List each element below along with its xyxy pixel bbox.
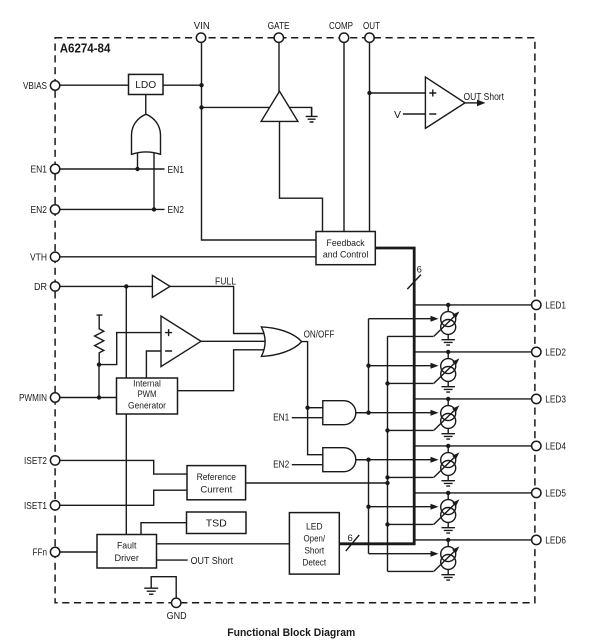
wire AND2 output to EN-B and LED4 (356, 459, 369, 461)
svg-text:VTH: VTH (30, 252, 47, 264)
svg-text:Functional Block Diagram: Functional Block Diagram (227, 627, 355, 639)
current source Q3 (LED3 sink) (434, 399, 460, 433)
bus slash 6 top (407, 275, 421, 290)
wire enable arrow into LED1 cell (369, 318, 431, 320)
wire ON/OFF from OR output down to AND gates (302, 342, 323, 455)
wire TSD to Fault Driver (141, 523, 187, 535)
wire enable arrow into LED2 cell (369, 365, 431, 367)
wire OR gate U2 output to LDO (145, 95, 147, 114)
pin LED3 (532, 394, 567, 406)
wire EN1 line (60, 168, 165, 170)
junction EN-A LED2 branch (366, 364, 370, 368)
wire VIN supply to gate driver (202, 106, 277, 108)
wire VBIAS to LDO (60, 84, 129, 86)
wire EN-A vertical bus (AND1 output to LED1-3) (368, 319, 370, 413)
svg-text:Open/: Open/ (304, 533, 326, 544)
junction LED4 row (446, 444, 450, 448)
wire gate driver input from Feedback (280, 121, 323, 231)
junction VIN-driver (199, 105, 203, 109)
svg-text:Generator: Generator (128, 400, 166, 411)
svg-text:and Control: and Control (323, 250, 368, 261)
wire FULL from buffer to OR gate top input (170, 286, 266, 333)
wire Fault Driver OUT Short output (157, 559, 188, 561)
svg-text:A6274-84: A6274-84 (60, 41, 111, 56)
comparator U4 (OUT Short) (425, 77, 465, 128)
pin GND (167, 598, 187, 622)
svg-text:ISET2: ISET2 (24, 455, 47, 467)
wire OUT to Feedback (369, 42, 371, 231)
ground of LED5 cell (441, 528, 455, 533)
wire DR line (60, 285, 153, 287)
wire driver to ground (284, 107, 312, 116)
svg-text:EN1: EN1 (31, 164, 48, 176)
svg-text:V: V (394, 109, 401, 121)
wire EN2 to AND2 input (292, 464, 323, 466)
ground of LED1 cell (441, 340, 455, 345)
wire OUT to comparator + input (370, 92, 426, 94)
ground of LED3 cell (441, 434, 455, 439)
pin VIN (194, 20, 210, 43)
wire VIN net vertical and into Feedback (202, 42, 317, 240)
wire reference current distribution line (246, 482, 388, 484)
wire EN2 line (60, 208, 165, 210)
wire LED5 output row (414, 492, 531, 494)
svg-text:COMP: COMP (329, 20, 353, 32)
wire enable arrow into LED6 cell (369, 553, 431, 555)
junction EN-B LED5 branch (366, 505, 370, 509)
wire reference tail into LED2 cell (388, 382, 434, 384)
wire EN-B vertical bus (AND2 output to LED4-6) (368, 460, 370, 554)
pin LED1 (532, 300, 567, 312)
wire enable arrow into LED3 cell (356, 412, 431, 414)
wire PWM generator output to OR gate bottom input (178, 350, 267, 391)
junction resistor bottom (97, 362, 101, 366)
junction ref LED2 tail (385, 381, 389, 385)
comparator U6 (PWM) (161, 316, 201, 367)
junction OUT-comparator (367, 91, 371, 95)
svg-text:LED1: LED1 (545, 300, 566, 312)
svg-text:LED6: LED6 (545, 535, 566, 547)
svg-text:Detect: Detect (303, 557, 327, 568)
wire VTH to Feedback (60, 256, 316, 258)
svg-text:GND: GND (167, 610, 187, 622)
ground chassis near GND (144, 588, 158, 594)
and-gate U8 (EN1) (323, 401, 356, 425)
wire enable arrow into LED5 cell (369, 506, 431, 508)
ground of LED6 cell (441, 575, 455, 580)
svg-text:Short: Short (304, 545, 324, 556)
pin ISET1 (24, 500, 60, 512)
junction LED6 row (446, 538, 450, 542)
wire ON/OFF branch to AND1 (308, 407, 323, 409)
junction ref LED3 tail (385, 428, 389, 432)
svg-text:Internal: Internal (133, 378, 161, 389)
ground of LED4 cell (441, 481, 455, 486)
wire GATE to driver (278, 42, 280, 92)
wire LDO to VIN node (163, 84, 202, 86)
pin PWMIN (19, 392, 60, 404)
svg-text:OUT Short: OUT Short (464, 91, 505, 103)
svg-text:EN2: EN2 (273, 459, 289, 471)
pin LED4 (532, 441, 567, 453)
wire reference tail into LED5 cell (388, 523, 434, 525)
svg-text:EN1: EN1 (168, 164, 185, 176)
wire EN2 to OR input (153, 150, 155, 209)
wire V to comparator - input (403, 113, 426, 115)
junction ref LED4 tail (385, 475, 389, 479)
junction DR (124, 284, 128, 288)
and-gate U9 (EN2) (323, 448, 356, 472)
svg-text:6: 6 (417, 265, 422, 276)
svg-text:EN2: EN2 (168, 204, 185, 216)
block TSD (187, 512, 247, 534)
block Feedback and Control (316, 232, 375, 265)
wire LED1 output row (414, 304, 531, 306)
pin COMP (329, 20, 353, 43)
svg-text:EN1: EN1 (273, 412, 289, 424)
svg-text:OUT Short: OUT Short (191, 555, 234, 567)
wire PWM generator down to Fault Driver (125, 414, 127, 535)
pin LED5 (532, 488, 567, 500)
junction LED2 row (446, 350, 450, 354)
ground near gate driver (311, 107, 313, 116)
pin VTH (30, 252, 60, 264)
wire EN1 to AND1 input (292, 417, 323, 419)
current source Q4 (LED4 sink) (434, 446, 460, 480)
svg-text:ISET1: ISET1 (24, 500, 47, 512)
junction EN1-OR (135, 167, 139, 171)
junction LED1 row (446, 303, 450, 307)
svg-text:FULL: FULL (215, 275, 236, 287)
pin OUT (363, 20, 380, 43)
wire resistor node to comparator + input (99, 333, 161, 365)
svg-text:VIN: VIN (194, 20, 210, 32)
current source Q2 (LED2 sink) (434, 352, 460, 386)
pin ISET2 (24, 455, 60, 467)
svg-text:LED5: LED5 (545, 488, 566, 500)
pin LED2 (532, 347, 567, 359)
pin EN2 (31, 204, 60, 216)
wire enable arrow into LED4 cell (356, 459, 431, 461)
svg-text:ON/OFF: ON/OFF (304, 329, 335, 341)
svg-text:Reference: Reference (197, 472, 236, 483)
ground of LED2 cell (441, 387, 455, 392)
junction ON/OFF-AND1 (305, 406, 309, 410)
svg-text:DR: DR (34, 281, 47, 293)
wire comparator output to OR gate middle input (201, 340, 266, 342)
wire LED2 output row (414, 351, 531, 353)
block Internal PWM Generator (117, 378, 178, 414)
svg-text:LED2: LED2 (545, 347, 566, 359)
or-gate U7 (ON/OFF) (261, 327, 301, 357)
svg-text:Fault: Fault (117, 541, 137, 552)
junction LED5 row (446, 491, 450, 495)
wire FFn to Fault Driver (60, 551, 97, 553)
op-amp gate driver triangle U3 (261, 91, 298, 121)
pin DR (34, 281, 60, 293)
pin EN1 (31, 164, 60, 176)
svg-text:OUT: OUT (363, 20, 380, 32)
pin LED6 (532, 535, 567, 547)
wire comparator - input from PWM generator (146, 351, 161, 378)
svg-text:Current: Current (200, 484, 232, 495)
block LDO (129, 74, 164, 94)
wire reference tail into LED4 cell (388, 476, 434, 478)
svg-text:6: 6 (348, 533, 353, 544)
wire reference tail into LED6 cell (388, 570, 434, 572)
wire comparator output arrow OUT Short (465, 102, 478, 104)
svg-text:LED: LED (306, 521, 323, 532)
wire COMP to Feedback (343, 42, 345, 231)
buffer U5 (DR full) (152, 275, 170, 297)
svg-text:LED3: LED3 (545, 394, 566, 406)
wire ISET1 to Reference Current (60, 490, 187, 505)
svg-text:TSD: TSD (206, 518, 227, 530)
wire LED6 output row (414, 539, 531, 541)
wire LED4 output row (414, 445, 531, 447)
svg-text:FFn: FFn (33, 547, 48, 559)
block Reference Current (187, 466, 246, 500)
junction EN-A AND1 output (366, 411, 370, 415)
wire reference tail into LED1 cell (388, 335, 434, 337)
wire LED3 output row (414, 398, 531, 400)
bus slash 6 bottom (346, 535, 359, 551)
wire Fault Driver to LED Open/Short Detect (157, 543, 290, 545)
junction VIN-LDO (199, 83, 203, 87)
svg-text:EN2: EN2 (31, 204, 48, 216)
or-gate U2 (EN1+EN2 to LDO) (132, 114, 161, 154)
junction resistor-PWMIN (97, 395, 101, 399)
current source Q6 (LED6 sink) (434, 540, 460, 574)
svg-text:Feedback: Feedback (327, 238, 365, 249)
bus 6-wire from Feedback to LED drivers and detect (339, 248, 414, 544)
junction LED3 row (446, 397, 450, 401)
junction ref line input (385, 481, 389, 485)
block LED Open/Short Detect (289, 513, 339, 575)
wire GND to chassis ground (151, 577, 176, 598)
resistor R1 (95, 315, 104, 365)
wire ISET2 to Reference Current (60, 460, 187, 474)
wire PWMIN to PWM generator (60, 397, 117, 399)
pin VBIAS (23, 80, 60, 92)
IC boundary dashed border (55, 38, 535, 603)
wire DR down to PWM generator (125, 286, 127, 378)
pin FFn (33, 547, 60, 559)
pin GATE (268, 20, 290, 43)
wire AND1 output to EN-A and LED3 (356, 412, 369, 414)
svg-text:PWM: PWM (138, 389, 157, 400)
svg-text:VBIAS: VBIAS (23, 80, 47, 92)
junction EN2-OR (152, 207, 156, 211)
current source Q5 (LED5 sink) (434, 493, 460, 527)
svg-text:Driver: Driver (114, 553, 139, 564)
junction EN-B AND2 output (366, 458, 370, 462)
block Fault Driver (97, 535, 157, 569)
wire resistor to PWMIN (98, 365, 100, 398)
wire reference vertical bus (387, 336, 389, 571)
svg-text:GATE: GATE (268, 20, 290, 32)
svg-text:PWMIN: PWMIN (19, 392, 47, 404)
wire EN1 to OR input (137, 150, 139, 169)
junction ref LED5 tail (385, 522, 389, 526)
svg-text:LED4: LED4 (545, 441, 566, 453)
wire reference tail into LED3 cell (388, 429, 434, 431)
svg-text:LDO: LDO (135, 79, 156, 91)
current source Q1 (LED1 sink) (434, 305, 460, 339)
